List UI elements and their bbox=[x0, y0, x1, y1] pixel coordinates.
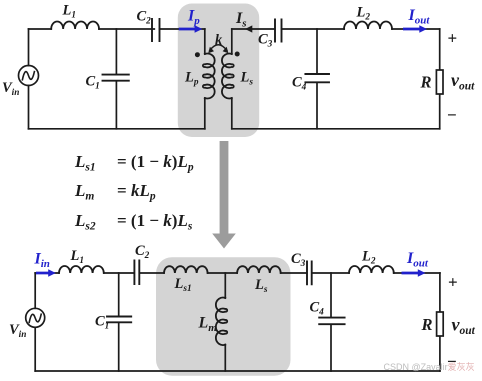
svg-text:R: R bbox=[421, 315, 433, 334]
big gray transform arrow bbox=[212, 141, 236, 249]
wire: top rail L2 to load bbox=[392, 28, 440, 30]
svg-text:k: k bbox=[215, 33, 223, 49]
wire: transformer primary bottom lead bbox=[204, 98, 206, 129]
wire: T-model center node rail bbox=[208, 272, 238, 274]
inductor L2 (bottom circuit) bbox=[349, 266, 394, 273]
svg-text:CSDN @Zavalir爱灰灰: CSDN @Zavalir爱灰灰 bbox=[384, 361, 475, 372]
inductor L1 (bottom circuit) bbox=[59, 266, 104, 273]
wire: load branch vertical (bottom circuit) bbox=[439, 273, 441, 371]
inductor Ls (T-model series secondary) bbox=[237, 266, 281, 273]
coupling arc k (top transformer) bbox=[209, 45, 227, 51]
wire: bottom top rail L1 to C2 bbox=[104, 272, 134, 274]
inductor L1 (top circuit) bbox=[51, 22, 99, 29]
transformer primary winding Lp bbox=[203, 54, 215, 99]
inductor Lm (T-model shunt magnetizing) bbox=[216, 298, 227, 346]
transformer secondary winding Ls bbox=[222, 54, 234, 99]
T-model highlight box (bottom circuit) bbox=[156, 257, 291, 376]
current arrow Iout (blue, bottom circuit) bbox=[402, 272, 420, 275]
wire: top rail L1 to C2 bbox=[99, 28, 154, 30]
voltage source Vin (top circuit) bbox=[19, 66, 39, 86]
voltage source Vin (bottom circuit) bbox=[26, 308, 45, 327]
wire: top rail C3 to L2 bbox=[282, 28, 345, 30]
transformer highlight box (top circuit) bbox=[178, 4, 259, 138]
svg-text:+: + bbox=[448, 273, 458, 292]
k arc arrowhead right bbox=[223, 47, 229, 53]
node A branch wire to C1 (top circuit) bbox=[115, 29, 117, 129]
inductor L2 (top circuit) bbox=[344, 22, 392, 30]
svg-text:R: R bbox=[420, 73, 432, 92]
current arrow Is (black, top circuit) bbox=[245, 25, 252, 32]
wire: transformer secondary top lead bbox=[231, 29, 233, 54]
wire: bottom top rail Ls to C3 bbox=[281, 272, 307, 274]
wire: bottom circuit left vertical (source branch) bbox=[34, 273, 36, 371]
wire: transformer primary top lead bbox=[204, 29, 206, 54]
capacitor C4 (bottom circuit) bbox=[319, 318, 344, 325]
capacitor C4 (top circuit) bbox=[305, 74, 329, 82]
wire: Lm top lead bbox=[224, 273, 226, 298]
resistor R (top circuit) bbox=[436, 70, 443, 94]
wire: top rail secondary to C3 bbox=[232, 28, 275, 30]
svg-text:−: − bbox=[447, 106, 457, 125]
svg-text:+: + bbox=[448, 29, 458, 48]
capacitor C2 (top circuit) bbox=[152, 19, 160, 41]
capacitor C3 (bottom circuit) bbox=[307, 262, 312, 285]
node branch wire to C4 (bottom circuit) bbox=[330, 273, 332, 371]
resistor R (bottom circuit) bbox=[437, 312, 444, 336]
current arrow Iin (blue, bottom circuit) bbox=[36, 272, 50, 275]
current arrow Ip (blue, top circuit) bbox=[179, 28, 196, 31]
inductor Ls1 (T-model series primary) bbox=[164, 266, 208, 273]
node B branch wire to C4 (top circuit) bbox=[316, 29, 318, 129]
wire: bottom top rail C2 to Ls1 bbox=[140, 272, 165, 274]
wire: bottom top rail C3 to L2 bbox=[312, 272, 349, 274]
polarity dot secondary bbox=[235, 52, 240, 57]
wire: bottom circuit bottom rail bbox=[35, 370, 440, 372]
wire: top circuit bottom rail (primary side) bbox=[29, 128, 205, 130]
capacitor C3 (top circuit) bbox=[275, 20, 282, 42]
wire: Lm bottom lead bbox=[224, 345, 226, 371]
wire: top circuit bottom rail (secondary side) bbox=[232, 128, 440, 130]
capacitor C2 (bottom circuit) bbox=[134, 261, 139, 285]
capacitor C1 (top circuit) bbox=[103, 75, 129, 81]
wire: load branch vertical (top circuit) bbox=[439, 29, 441, 129]
node branch wire to C1 (bottom circuit) bbox=[118, 273, 120, 371]
wire: bottom top rail source to L1 bbox=[35, 272, 59, 274]
current arrow Iout (blue, top circuit) bbox=[403, 28, 421, 31]
wire: transformer secondary bottom lead bbox=[231, 98, 233, 129]
wire: top circuit left vertical (source branch) bbox=[28, 29, 30, 129]
polarity dot primary bbox=[195, 52, 200, 57]
k arc arrowhead left bbox=[208, 47, 214, 53]
capacitor C1 (bottom circuit) bbox=[107, 317, 131, 323]
wire: top circuit top rail, source to L1 bbox=[29, 28, 52, 30]
wire: top rail C2 to transformer primary bbox=[160, 28, 205, 30]
wire: bottom top rail L2 to load bbox=[394, 272, 440, 274]
